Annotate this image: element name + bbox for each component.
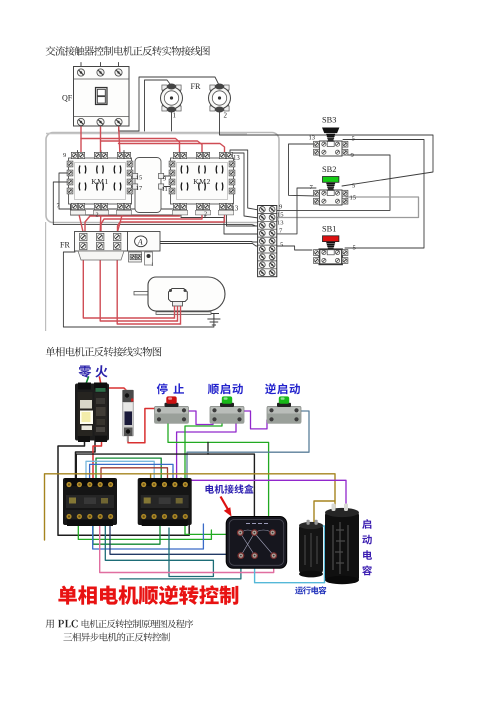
svg-text:9: 9 [279,204,283,211]
svg-text:QF: QF [62,94,73,103]
svg-text:5: 5 [352,136,356,143]
svg-text:1: 1 [151,263,154,268]
svg-text:13: 13 [233,155,240,162]
svg-text:15: 15 [136,175,142,182]
svg-text:7: 7 [310,184,314,191]
svg-text:11: 11 [162,186,168,193]
svg-text:5: 5 [280,242,284,249]
svg-text:KM1: KM1 [91,177,109,186]
svg-text:15: 15 [350,195,357,202]
svg-text:9: 9 [163,176,166,183]
svg-text:13: 13 [232,206,239,213]
svg-text:13: 13 [309,135,316,142]
svg-text:1: 1 [173,112,177,120]
svg-text:9: 9 [63,152,66,159]
svg-text:9: 9 [351,152,355,159]
svg-text:17: 17 [136,185,143,192]
svg-text:13: 13 [277,220,284,227]
svg-text:FR: FR [60,241,70,250]
svg-text:2: 2 [224,112,228,120]
svg-text:15: 15 [277,212,284,219]
svg-text:KM2: KM2 [193,177,211,186]
svg-text:SB3: SB3 [322,116,336,125]
svg-text:A: A [137,237,143,246]
svg-text:SB2: SB2 [322,165,336,174]
svg-text:2: 2 [204,211,207,218]
svg-text:7: 7 [57,203,60,210]
svg-text:FR: FR [191,82,202,91]
svg-text:SB1: SB1 [322,225,336,234]
svg-text:2: 2 [96,212,99,219]
